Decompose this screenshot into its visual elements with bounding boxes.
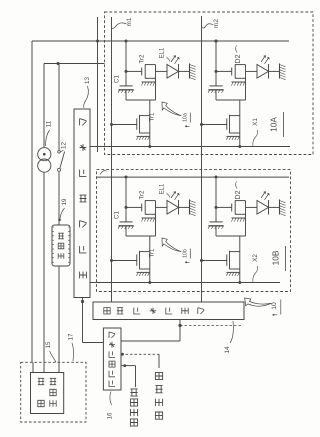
pixel circuit 10b: EL element anode wire bbox=[156, 206, 168, 208]
svg-text:Tr1: Tr1 bbox=[150, 112, 156, 121]
rail B junction hook bbox=[100, 171, 107, 175]
svg-text:13: 13 bbox=[84, 77, 91, 84]
pixel circuit upper-right: transistor Tr1 drain wire bbox=[239, 100, 241, 147]
pixel circuit lower-right: transistor Tr2 gate lead wire bbox=[216, 206, 232, 208]
svg-text:EL1: EL1 bbox=[160, 183, 166, 194]
pixel circuit lower-right: supply drop wire bbox=[215, 177, 217, 207]
pixel circuit upper-right: capacitor bbox=[210, 85, 223, 87]
controller box 16 bbox=[103, 328, 121, 390]
pixel circuit lower-right: common cathode terminal bbox=[279, 200, 281, 215]
pixel circuit 10b: capacitor bbox=[120, 221, 133, 223]
pixel circuit lower-right: transistor Tr1 source junction bbox=[238, 281, 241, 284]
svg-text:12: 12 bbox=[61, 142, 68, 149]
pixel circuit lower-right: EL diode bbox=[257, 201, 269, 215]
svg-text:Tr2: Tr2 bbox=[140, 54, 146, 63]
pixel circuit 10a: transistor Tr2 bbox=[141, 68, 143, 76]
pixel circuit 10a: light emission arrows bbox=[171, 56, 176, 63]
pixel circuit lower-right: wire to capacitor bbox=[215, 207, 217, 222]
auxiliary wire in panel 10A bbox=[97, 17, 99, 152]
series element text bbox=[58, 253, 64, 259]
pixel circuit lower-right: EL element anode wire bbox=[246, 206, 258, 208]
svg-text:17: 17 bbox=[68, 333, 75, 340]
pixel circuit label 10a with arrow bbox=[162, 102, 181, 116]
pixel circuit 10a: transistor Tr1 bbox=[140, 115, 150, 117]
anode supply rail A (horizontal) bbox=[32, 40, 289, 42]
svg-text:m1: m1 bbox=[126, 17, 133, 26]
svg-text:X1: X1 bbox=[252, 118, 259, 126]
pixel circuit 10a: supply drop wire bbox=[125, 41, 127, 71]
pixel circuit 10a: node gate-feed junction bbox=[125, 70, 128, 73]
label 10 with arrow bbox=[245, 298, 272, 306]
svg-text:C1: C1 bbox=[114, 210, 121, 218]
pixel circuit upper-right: cathode lead wire bbox=[269, 70, 280, 72]
display panel 10A dashed box bbox=[105, 12, 314, 155]
pixel circuit 10b: node gate-feed junction bbox=[125, 206, 128, 209]
pixel circuit lower-right: storage node wire bbox=[216, 235, 246, 237]
svg-text:10A: 10A bbox=[269, 117, 279, 132]
pixel circuit 10b: wire to capacitor bbox=[125, 207, 127, 222]
pixel circuit 10a: capacitor bbox=[120, 85, 133, 87]
pixel circuit lower-right: transistor Tr1 drain wire bbox=[239, 236, 241, 283]
pixel circuit 10a: transistor Tr2 gate lead wire bbox=[126, 70, 142, 72]
pixel circuit lower-right: node gate-feed junction bbox=[215, 206, 218, 209]
rail A junction dots bbox=[96, 40, 99, 43]
scan driver text (rotated kana) bbox=[104, 308, 110, 314]
pixel circuit 10b: transistor Tr1 gate lead wire bbox=[112, 260, 137, 262]
power circuit 17 dashed box bbox=[21, 362, 86, 422]
svg-text:D2: D2 bbox=[235, 54, 242, 63]
series element 19 box bbox=[52, 225, 70, 266]
pixel circuit upper-right: common cathode terminal bbox=[279, 64, 281, 79]
scan line m1 bbox=[111, 17, 113, 302]
pixel circuit lower-right: capacitor bbox=[210, 221, 223, 223]
pixel circuit 10b: transistor Tr1 drain wire bbox=[149, 236, 151, 283]
pixel circuit lower-right: transistor Tr2 bbox=[231, 204, 233, 212]
pixel circuit upper-right: storage node wire bbox=[216, 99, 246, 101]
pixel circuit 10a: storage node wire bbox=[126, 99, 156, 101]
pixel circuit upper-right: transistor Tr1 source junction bbox=[238, 145, 241, 148]
supply rail A left drop to power circuit bbox=[31, 41, 33, 362]
wire data driver to controller bbox=[82, 298, 84, 343]
svg-text:10b: 10b bbox=[182, 249, 188, 258]
pixel circuit upper-right: wire to capacitor bbox=[215, 71, 217, 86]
pixel circuit 10a: cathode lead wire bbox=[179, 70, 190, 72]
pixel circuit 10b: transistor Tr1 bbox=[140, 251, 150, 253]
pixel circuit label 10b with arrow bbox=[162, 238, 181, 252]
svg-text:Tr2: Tr2 bbox=[140, 190, 146, 199]
switch 12 bbox=[58, 168, 61, 171]
svg-text:X2: X2 bbox=[252, 254, 259, 262]
pixel circuit 10b: supply drop wire bbox=[125, 177, 127, 207]
pixel circuit upper-right: transistor Tr1 gate lead wire bbox=[202, 124, 227, 126]
video signal input wire bbox=[121, 365, 136, 367]
pixel circuit 10a: EL element anode wire bbox=[156, 70, 168, 72]
controller text (katakana rotated) bbox=[109, 332, 115, 338]
display panel 10B dashed box bbox=[97, 170, 291, 292]
sync signal text bbox=[155, 372, 162, 379]
pixel circuit 10b: transistor Tr1 source junction bbox=[148, 281, 151, 284]
pixel circuit upper-right: transistor Tr2 gate lead wire bbox=[216, 70, 232, 72]
anode supply rail B (horizontal) bbox=[96, 176, 289, 178]
supply feed line from power source bbox=[44, 63, 105, 65]
pixel circuit 10b: transistor Tr2 bbox=[141, 204, 143, 212]
dashed stub from scan junction bbox=[180, 325, 242, 327]
sync signal input wire bbox=[121, 353, 159, 355]
wire controller to scan driver bbox=[121, 340, 180, 342]
pixel circuit upper-right: node gate-feed junction bbox=[215, 70, 218, 73]
power control unit inner box bbox=[31, 373, 64, 414]
power control text column 1 bbox=[38, 400, 44, 406]
pixel circuit 10b: common cathode terminal bbox=[189, 200, 191, 215]
pixel circuit 10a: EL diode bbox=[167, 65, 179, 79]
pixel circuit upper-right: light emission arrows bbox=[261, 56, 266, 63]
svg-text:C1: C1 bbox=[114, 74, 121, 82]
data line A from driver bbox=[90, 146, 290, 148]
power control text column 2 bbox=[50, 400, 56, 406]
pixel circuit 10a: transistor Tr1 source junction bbox=[148, 145, 151, 148]
switched supply line bbox=[58, 64, 60, 151]
pixel circuit upper-right: EL diode bbox=[257, 65, 269, 79]
svg-text:14: 14 bbox=[224, 346, 231, 353]
pixel circuit upper-right: transistor Tr1 bbox=[230, 115, 240, 117]
pixel circuit 10a: transistor Tr1 drain wire bbox=[149, 100, 151, 147]
svg-text:m2: m2 bbox=[213, 19, 220, 28]
video signal text bbox=[130, 389, 137, 396]
svg-text:11: 11 bbox=[46, 120, 53, 127]
svg-text:10B: 10B bbox=[271, 250, 281, 265]
pixel circuit 10a: wire to capacitor bbox=[125, 71, 127, 86]
pixel circuit 10b: small left arrow mark bbox=[185, 262, 190, 264]
pixel circuit 10a: transistor Tr1 gate lead wire bbox=[112, 124, 137, 126]
pixel circuit 10a: common cathode terminal bbox=[189, 64, 191, 79]
junction dot on feed line bbox=[57, 62, 60, 65]
pixel circuit 10b: storage node wire bbox=[126, 235, 156, 237]
pixel circuit lower-right: transistor Tr1 gate lead wire bbox=[202, 260, 227, 262]
scan driver box 14 bbox=[93, 302, 244, 320]
pixel circuit upper-right: transistor Tr2 bbox=[231, 68, 233, 76]
data line B from driver bbox=[90, 282, 280, 284]
svg-text:16: 16 bbox=[107, 412, 114, 419]
pixel circuit 10b: transistor Tr2 gate lead wire bbox=[126, 206, 142, 208]
pixel circuit upper-right: EL element anode wire bbox=[246, 70, 258, 72]
pixel circuit lower-right: light emission arrows bbox=[261, 192, 266, 199]
svg-text:D2: D2 bbox=[235, 190, 242, 199]
pixel circuit lower-right: cathode lead wire bbox=[269, 206, 280, 208]
svg-text:Tr1: Tr1 bbox=[150, 248, 156, 257]
pixel circuit 10b: cathode lead wire bbox=[179, 206, 190, 208]
svg-text:19: 19 bbox=[61, 198, 68, 205]
scan line m2 bbox=[201, 16, 203, 302]
data driver box 13 bbox=[74, 109, 90, 298]
svg-text:10: 10 bbox=[271, 302, 278, 310]
svg-text:10a: 10a bbox=[182, 113, 188, 122]
supply rails into power circuit bbox=[32, 362, 34, 372]
data driver text (katakana, rotated) bbox=[80, 119, 87, 126]
svg-text:EL1: EL1 bbox=[160, 47, 166, 58]
pixel circuit 10a: small left arrow mark bbox=[185, 126, 190, 128]
pixel circuit lower-right: transistor Tr1 bbox=[230, 251, 240, 253]
pixel circuit upper-right: supply drop wire bbox=[215, 41, 217, 71]
pixel circuit 10b: light emission arrows bbox=[171, 192, 176, 199]
power source 11 symbol bbox=[38, 148, 51, 161]
pixel circuit 10b: EL diode bbox=[167, 201, 179, 215]
svg-text:15: 15 bbox=[45, 341, 52, 348]
